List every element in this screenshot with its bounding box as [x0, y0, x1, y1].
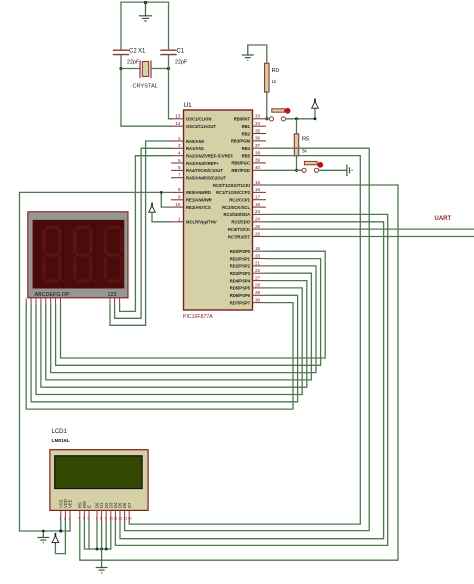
7-segment display screen	[33, 220, 125, 289]
LCD screen	[55, 456, 142, 489]
svg-text:E: E	[87, 505, 92, 508]
wire RD1 to 7seg segment	[56, 259, 321, 366]
wire RA1 to 7seg digit 2	[115, 148, 171, 318]
svg-text:LCD1: LCD1	[52, 429, 68, 435]
wire RD7 to 7seg segment	[26, 303, 293, 410]
wire C1 top lead	[168, 2, 170, 50]
LCD pin stubs	[61, 510, 129, 521]
U1 left pin stubs	[171, 119, 184, 222]
wire RD2 to 7seg segment	[51, 266, 316, 373]
7-segment digit separators	[63, 220, 94, 289]
wire RD3 to 7seg segment	[46, 273, 312, 380]
wire RC7 RX UART	[266, 236, 474, 238]
ground LCD data bus	[96, 568, 108, 573]
svg-text:14: 14	[128, 517, 132, 521]
wire LCD D1 drop	[101, 522, 103, 550]
wire RD4 to 7seg segment	[41, 281, 307, 388]
wire LCD E drop	[88, 522, 90, 550]
wire RB7 to button 2	[266, 169, 302, 171]
wire C1 bottom lead to pin 13	[169, 55, 172, 119]
node ground rail junction	[42, 530, 45, 533]
node C2 crystal tap	[119, 67, 122, 70]
wire crystal left link	[121, 68, 140, 70]
wire C2 bottom lead to pin 14	[121, 55, 172, 126]
node bus D1	[100, 548, 103, 551]
7-segment digit eights	[42, 226, 124, 283]
wire RC6 TX UART	[266, 228, 474, 230]
svg-text:3: 3	[69, 517, 71, 521]
wire LCD VSS drop	[60, 522, 62, 532]
svg-text:5: 5	[83, 517, 85, 521]
wire R5 bottom lead	[296, 156, 298, 171]
svg-text:123: 123	[108, 292, 117, 298]
wire RC5 to LCD D5	[120, 222, 384, 539]
svg-text:D7: D7	[127, 502, 132, 508]
ground R0	[242, 45, 254, 60]
svg-text:4: 4	[78, 517, 80, 521]
node crystal bus junction	[144, 1, 147, 4]
svg-text:6: 6	[88, 517, 90, 521]
wire button 1 to power arrow	[286, 108, 316, 119]
svg-text:ABCDEFG DP: ABCDEFG DP	[35, 292, 70, 298]
svg-text:10: 10	[109, 517, 113, 521]
node bus D2	[105, 548, 108, 551]
wire RB5 to LCD D7	[129, 156, 360, 524]
IC U1 PIC16F877A body	[184, 110, 253, 310]
wire RD6 to 7seg segment	[31, 295, 298, 402]
svg-text:VEE: VEE	[68, 499, 73, 508]
node R0 to RB0	[265, 117, 268, 120]
node C1 crystal tap	[167, 67, 170, 70]
LCD pin numbers	[59, 517, 131, 521]
wire RC4 to LCD D4	[115, 214, 387, 545]
capacitor C1	[161, 50, 176, 54]
svg-text:9: 9	[105, 517, 107, 521]
U1 right pin numbers	[255, 114, 261, 303]
push button 2 on RB7	[302, 161, 319, 172]
node bus D0	[96, 548, 99, 551]
wire LCD VEE drop	[69, 522, 71, 532]
wire crystal right link	[151, 68, 168, 70]
svg-text:2: 2	[64, 517, 66, 521]
wire C2 top lead	[120, 2, 122, 50]
svg-text:8: 8	[100, 517, 102, 521]
wire R0 top to ground	[248, 45, 267, 63]
U1 right pin stubs	[253, 119, 267, 303]
wire LCD D2 drop	[105, 522, 107, 550]
7-segment pin stubs	[26, 298, 119, 304]
U1 left pin numbers	[175, 114, 181, 222]
capacitor C2	[114, 50, 129, 54]
LCD LM016L body	[50, 450, 148, 511]
wire RA0 to 7seg digit 1	[110, 141, 171, 325]
push button 1 on RB0	[269, 109, 285, 121]
svg-text:1: 1	[59, 517, 61, 521]
wire crystal top bus	[121, 1, 169, 3]
svg-text:11: 11	[114, 517, 118, 521]
wire LCD RW drop	[83, 522, 85, 550]
power +5V arrow at RB0 button	[312, 99, 319, 109]
resistor R0	[265, 63, 269, 92]
svg-text:13: 13	[123, 517, 127, 521]
crystal X1	[140, 61, 151, 78]
svg-text:12: 12	[119, 517, 123, 521]
U1 right pin names	[213, 117, 251, 306]
wire RD0 to 7seg segment	[61, 251, 326, 358]
ground rotated at RB7 button	[347, 164, 352, 176]
wire RA2 to 7seg digit 3	[120, 156, 171, 312]
wire R5 top lead	[296, 119, 298, 134]
wire MCLR to arrow	[152, 212, 171, 222]
node R5 to RB7	[295, 169, 298, 172]
ground LCD left	[37, 531, 49, 543]
wire bus to ground	[101, 549, 103, 568]
wire R0 bottom lead	[266, 92, 268, 119]
wire button 2 to ground	[319, 169, 347, 171]
svg-text:7: 7	[96, 517, 98, 521]
svg-text:LM016L: LM016L	[52, 438, 70, 444]
wire RD5 to 7seg segment	[36, 288, 302, 395]
power arrow at MCLR	[149, 203, 156, 213]
U1 left pin names	[186, 117, 233, 225]
wire RE0 to LCD VSS rail	[20, 192, 172, 531]
wire LCD D3 drop	[110, 522, 112, 550]
LCD pin names rotated	[58, 499, 131, 508]
7-segment display DISP1 frame	[28, 212, 128, 298]
wire RB0 to button 1	[266, 118, 269, 120]
wire LCD VDD to arrow	[55, 522, 65, 554]
power arrow LCD VDD	[52, 533, 59, 544]
node VSS rail junction	[59, 529, 62, 532]
ground crystal bus	[140, 2, 152, 21]
wire LCD data ground bus	[84, 548, 110, 550]
wire RC0 to LCD RS	[80, 185, 398, 560]
node RE0 link junction	[160, 191, 163, 194]
wire RB4 to LCD D6	[125, 148, 370, 530]
wire RE0 to RE2 link	[161, 192, 171, 207]
node R5 top junction	[295, 117, 298, 120]
resistor R5	[294, 134, 298, 156]
node arrow corner RB0	[314, 117, 317, 120]
wire LCD D0 drop	[96, 522, 98, 550]
